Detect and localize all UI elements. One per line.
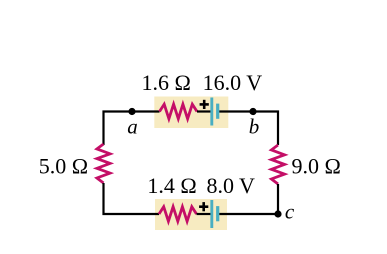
wire top-left: from left branch corner to resistor R1 [104, 112, 160, 146]
battery B2 8.0 V: short plate [216, 206, 219, 221]
wire between R3 and battery B2 [197, 213, 212, 215]
value label 16.0 V [203, 70, 263, 95]
wire left side lower: resistor R2 to bottom-left corner then to resistor R3 [104, 183, 160, 214]
resistor R1 1.6 ohm (top) [160, 104, 198, 119]
svg-text:1.4 Ω: 1.4 Ω [147, 173, 196, 198]
node a label [127, 115, 138, 139]
battery B1 16.0 V: long plate [210, 98, 213, 126]
wire battery B2 to node c [219, 213, 278, 215]
resistor R2 5.0 ohm (left) [97, 144, 110, 183]
resistor R4 9.0 ohm (right) [271, 145, 284, 184]
svg-text:16.0 V: 16.0 V [203, 70, 263, 95]
highlight box around R 1.4 ohm and 8.0 V battery [155, 199, 227, 230]
value label 8.0 V [206, 173, 255, 198]
svg-text:8.0 V: 8.0 V [206, 173, 255, 198]
plus sign of battery B1 [200, 100, 209, 109]
wire between R1 and battery B1 [197, 110, 211, 112]
svg-text:5.0 Ω: 5.0 Ω [39, 154, 88, 179]
highlight box around R 1.6 ohm and 16.0 V battery [154, 97, 228, 129]
value label 1.6 ohm [142, 70, 191, 95]
svg-text:9.0 Ω: 9.0 Ω [292, 154, 341, 179]
resistor R3 1.4 ohm (bottom) [159, 207, 197, 222]
svg-text:1.6 Ω: 1.6 Ω [142, 70, 191, 95]
battery B1 16.0 V: short plate [216, 104, 219, 119]
plus sign of battery B2 [199, 202, 208, 211]
svg-text:c: c [285, 200, 295, 224]
svg-text:b: b [249, 115, 260, 139]
svg-text:a: a [127, 115, 138, 139]
wire right side lower: resistor R4 to node c [277, 184, 279, 214]
battery B2 8.0 V: long plate [210, 200, 213, 228]
node b label [249, 115, 260, 139]
node c label [285, 200, 295, 224]
value label 1.4 ohm [147, 173, 196, 198]
value label 9.0 ohm [292, 154, 341, 179]
node a junction dot [128, 108, 135, 115]
node b junction dot [249, 108, 256, 115]
wire battery B1 to top-right corner and down right branch [219, 112, 278, 146]
node c junction dot [274, 210, 281, 217]
value label 5.0 ohm [39, 154, 88, 179]
